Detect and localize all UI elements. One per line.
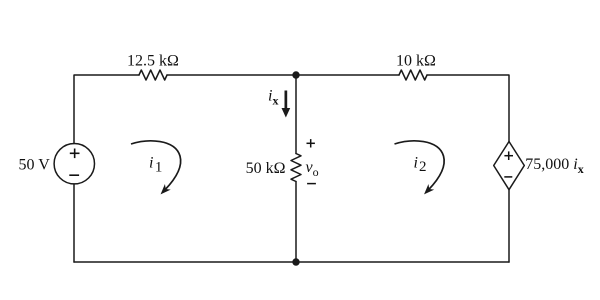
minus sign of vo xyxy=(307,183,316,185)
mesh current i2 arrow xyxy=(395,141,445,190)
voltage source V1 plus sign xyxy=(70,149,80,159)
resistor R2 50 kOhm vertical zigzag xyxy=(291,154,301,182)
resistor R1 12.5 kOhm zigzag xyxy=(139,70,167,80)
dependent source U1 plus sign xyxy=(504,151,513,160)
wire middle-top segment xyxy=(295,75,297,154)
wire middle-bottom segment xyxy=(295,182,297,263)
svg-text:50 kΩ: 50 kΩ xyxy=(246,160,286,177)
node A top junction dot xyxy=(292,71,299,78)
dependent source U1 minus sign xyxy=(504,176,512,178)
wire top-left segment xyxy=(74,75,139,144)
wire right-bottom segment xyxy=(508,190,510,262)
wire top-middle segment xyxy=(167,74,399,76)
svg-text:50 V: 50 V xyxy=(19,156,51,173)
svg-text:10 kΩ: 10 kΩ xyxy=(396,53,436,70)
mesh current i1 arrow xyxy=(131,141,181,190)
plus sign of vo xyxy=(307,139,315,147)
wire top-right segment xyxy=(427,75,509,142)
svg-text:12.5 kΩ: 12.5 kΩ xyxy=(127,53,179,70)
dependent source U1 diamond xyxy=(494,142,525,190)
resistor R3 10 kOhm zigzag xyxy=(399,70,427,80)
current ix arrow xyxy=(282,91,291,118)
voltage source V1 circle xyxy=(54,144,94,184)
wire bottom segment xyxy=(74,261,509,263)
wire left-bottom segment xyxy=(73,184,75,262)
node B bottom junction dot xyxy=(292,258,299,265)
voltage source V1 minus sign xyxy=(69,174,79,176)
